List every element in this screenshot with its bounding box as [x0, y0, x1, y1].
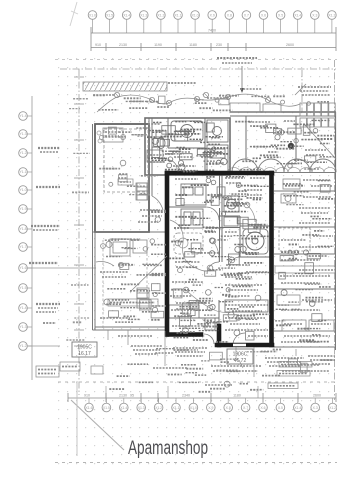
density: top leader band — [129, 107, 148, 109]
density: left lower room — [124, 315, 137, 317]
svg-text:X1.4: X1.4 — [120, 406, 127, 410]
unit number boxed label 1906C — [227, 349, 253, 364]
svg-text:2130: 2130 — [119, 394, 127, 398]
top wall band — [230, 112, 336, 173]
svg-text:X.8: X.8 — [227, 13, 232, 17]
top dimension lines — [91, 27, 336, 51]
circled numbers in unit — [175, 202, 261, 311]
left axis row grid circles — [19, 96, 32, 380]
svg-text:1180: 1180 — [189, 43, 197, 47]
svg-text:2600: 2600 — [286, 43, 294, 47]
svg-text:X.5: X.5 — [278, 13, 283, 17]
svg-text:X.3: X.3 — [312, 13, 317, 17]
faint dotted row top — [55, 59, 337, 61]
svg-text:Y1.2: Y1.2 — [20, 344, 27, 348]
laundry boxes — [224, 196, 239, 226]
left boxed label garasu — [36, 366, 59, 377]
density: corridor — [151, 253, 166, 255]
svg-text:Y1.0: Y1.0 — [20, 188, 27, 192]
svg-text:Y1.3: Y1.3 — [20, 325, 27, 329]
svg-text:X.6: X.6 — [261, 13, 266, 17]
bottom-left boxed label — [108, 299, 158, 306]
svg-text:X1.2: X1.2 — [328, 13, 335, 17]
unit interior walls — [167, 173, 240, 345]
svg-text:X.5: X.5 — [278, 406, 283, 410]
bottom-left room fixtures — [96, 239, 147, 268]
svg-text:X1.5: X1.5 — [103, 406, 110, 410]
svg-text:Y1.4: Y1.4 — [20, 114, 27, 118]
svg-text:X1.4: X1.4 — [294, 406, 301, 410]
density: left top room border zone — [119, 131, 132, 133]
right column texts — [303, 179, 330, 181]
north mark — [70, 2, 78, 26]
density: right column — [319, 286, 331, 288]
svg-text:2130: 2130 — [119, 43, 127, 47]
right column walls — [274, 173, 336, 350]
balcony diagonal — [305, 125, 336, 159]
svg-text:16.17: 16.17 — [78, 351, 91, 357]
bottom-left room walls — [93, 232, 166, 330]
svg-text:X1.1: X1.1 — [175, 13, 182, 17]
density: bathroom block — [190, 120, 202, 122]
svg-text:Y1.9: Y1.9 — [20, 207, 27, 211]
svg-text:1190: 1190 — [154, 43, 162, 47]
unit number boxed label 1905C — [72, 342, 97, 357]
bottom-left room diagonal + dashed verticals — [130, 256, 167, 292]
right boxed text — [275, 266, 335, 273]
bathroom block walls — [145, 118, 230, 175]
bottom dimension line — [68, 386, 336, 402]
svg-text:X1.4: X1.4 — [294, 13, 301, 17]
leader lines bottom — [165, 331, 296, 377]
curvy wire paths in unit — [170, 205, 255, 313]
canopy hatched bar — [83, 82, 196, 95]
sliding door arcs row — [228, 159, 336, 173]
svg-text:X.9: X.9 — [208, 406, 213, 410]
svg-text:Y1.4: Y1.4 — [20, 306, 27, 310]
svg-text:X.9: X.9 — [210, 13, 215, 17]
density: bottom strip — [195, 374, 206, 376]
svg-text:1905C: 1905C — [77, 345, 92, 351]
terrace dashed rect — [104, 129, 148, 192]
corridor details — [137, 183, 163, 308]
right column fixtures — [277, 179, 334, 331]
density: unit upper interior — [217, 239, 227, 241]
svg-text:X.8: X.8 — [226, 406, 231, 410]
thin gaps on bottom for doors — [233, 344, 246, 347]
interior door arcs — [204, 207, 245, 345]
svg-text:X1.6: X1.6 — [86, 406, 93, 410]
bottom annotation text blocks — [60, 346, 335, 389]
svg-text:1180: 1180 — [233, 394, 241, 398]
svg-text:2340: 2340 — [182, 394, 190, 398]
svg-text:Apamanshop: Apamanshop — [128, 438, 208, 459]
svg-text:X.6: X.6 — [260, 406, 265, 410]
ceiling leader wavy lines and fixture circles — [97, 94, 300, 112]
svg-text:X1.5: X1.5 — [106, 13, 113, 17]
svg-text:X.3: X.3 — [313, 406, 318, 410]
filled dot — [288, 143, 294, 149]
svg-text:X1.2: X1.2 — [157, 13, 164, 17]
kitchen counter boxes — [181, 184, 206, 228]
left room top fixtures — [97, 128, 128, 178]
left room bottom boxed label — [118, 179, 147, 200]
bottom axis circles — [85, 398, 337, 412]
svg-text:7400: 7400 — [208, 29, 216, 33]
svg-text:X1.1: X1.1 — [173, 406, 180, 410]
svg-text:910: 910 — [84, 394, 90, 398]
svg-text:X1.6: X1.6 — [89, 13, 96, 17]
top right tiny texts — [240, 87, 331, 95]
svg-text:X.7: X.7 — [244, 13, 249, 17]
svg-text:Y1.1: Y1.1 — [20, 170, 27, 174]
svg-text:X1.3: X1.3 — [138, 406, 145, 410]
svg-text:1906C: 1906C — [233, 352, 248, 358]
svg-text:2600: 2600 — [313, 394, 321, 398]
site boundary dash-dot lines — [60, 60, 336, 400]
top center label and leader arrow — [217, 58, 257, 93]
svg-text:Y1.6: Y1.6 — [20, 266, 27, 270]
background dot grid — [52, 52, 337, 470]
svg-text:Y1.3: Y1.3 — [20, 132, 27, 136]
bathtub — [171, 121, 203, 141]
svg-text:95: 95 — [130, 394, 134, 398]
svg-text:X1.3: X1.3 — [140, 13, 147, 17]
svg-text:X1.0: X1.0 — [190, 406, 197, 410]
svg-text:X1.2: X1.2 — [155, 406, 162, 410]
svg-text:230: 230 — [216, 43, 222, 47]
top-right room tiny texts — [249, 121, 270, 123]
bathroom small texts — [148, 123, 160, 125]
unit bathroom tub — [240, 226, 271, 257]
unit tiny texts — [175, 178, 198, 180]
svg-text:Y1.7: Y1.7 — [20, 245, 27, 249]
highlighted unit thick outline — [167, 173, 272, 345]
diagonal line to Apamanshop — [71, 400, 124, 450]
extra leader lines bottom-left — [127, 330, 129, 345]
svg-text:X.7: X.7 — [243, 406, 248, 410]
svg-text:Y1.5: Y1.5 — [20, 286, 27, 290]
left margin annotation texts — [28, 148, 96, 346]
svg-text:X1.2: X1.2 — [329, 406, 336, 410]
toilet — [156, 131, 166, 149]
svg-text:46.72: 46.72 — [234, 358, 247, 364]
svg-text:Y1.8: Y1.8 — [20, 227, 27, 231]
washbasin — [207, 120, 228, 172]
density: unit lower interior — [228, 296, 238, 298]
density: right top rooms — [280, 141, 292, 143]
unit bottom fixtures — [169, 300, 268, 330]
left room walls — [93, 118, 153, 330]
svg-text:X1.4: X1.4 — [123, 13, 130, 17]
dashed table — [174, 233, 203, 254]
top axis column grid circles — [88, 11, 336, 33]
dotted scan rows — [55, 382, 337, 463]
svg-text:910: 910 — [95, 43, 101, 47]
left strip small ticks — [74, 77, 84, 346]
closet row boxes top right — [230, 84, 335, 127]
svg-text:X1.0: X1.0 — [192, 13, 199, 17]
svg-text:Y1.2: Y1.2 — [20, 151, 27, 155]
